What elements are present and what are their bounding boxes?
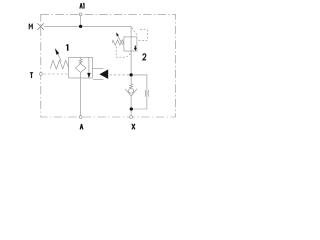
wire bypass loop (orifice branch) (131, 75, 147, 109)
wire check valve to node X (130, 96, 132, 117)
pilot actuator triangle (99, 69, 108, 79)
valve U1 inlet stub (80, 57, 82, 59)
orifice R1 (144, 90, 147, 97)
wire valve2 bottom to pilot node (130, 37, 132, 75)
valve U2 drain dashed loop (137, 29, 147, 40)
valve U1 spring (50, 60, 68, 69)
label 1 (66, 44, 68, 51)
wire A1 column (port A1 down to junction) (80, 15, 82, 26)
valve U2 internal arrow (134, 46, 136, 49)
wire M to valve 2 corner (44, 26, 131, 37)
junction node X (130, 107, 133, 110)
label T (30, 73, 33, 78)
valve U2 body (124, 37, 137, 51)
valve U1 pilot stub lower (93, 79, 103, 81)
junction node at A1 wire (79, 25, 82, 28)
valve U2 spring (112, 40, 124, 45)
junction node pilot (129, 73, 132, 76)
port M plug cross (37, 23, 44, 30)
check valve seat (125, 89, 137, 96)
valve U2 adjustment arrow (117, 34, 123, 45)
valve U1 check diamond (75, 64, 86, 73)
valve U1 body (69, 57, 93, 78)
port A marker (79, 116, 82, 119)
valve U2 pilot dashed (lower loop) (116, 46, 131, 57)
check valve spring (130, 84, 133, 89)
valve U1 internal passage arrow (88, 57, 90, 74)
label A1 (80, 3, 84, 9)
valve U1 check spring (79, 59, 82, 64)
valve U1 adjustment arrow (57, 53, 61, 62)
label 2 (143, 54, 146, 60)
label M (29, 24, 32, 30)
pilot line dashed from T to valve1 (44, 73, 69, 75)
valve U1 pilot stub upper (93, 67, 104, 69)
wire valve1 outlet to port A (80, 73, 82, 117)
valve U2 pilot dashed diagonal (132, 28, 137, 36)
manifold boundary (dash-dot enclosure) (41, 14, 176, 117)
label X (132, 124, 135, 130)
check valve ball (129, 88, 134, 93)
port X marker (130, 116, 133, 119)
pilot line dashed to node (110, 74, 130, 76)
wire pilot node down to check valve (130, 75, 132, 84)
port T marker (40, 73, 43, 76)
port A1 marker (79, 13, 82, 16)
label A (80, 124, 83, 130)
